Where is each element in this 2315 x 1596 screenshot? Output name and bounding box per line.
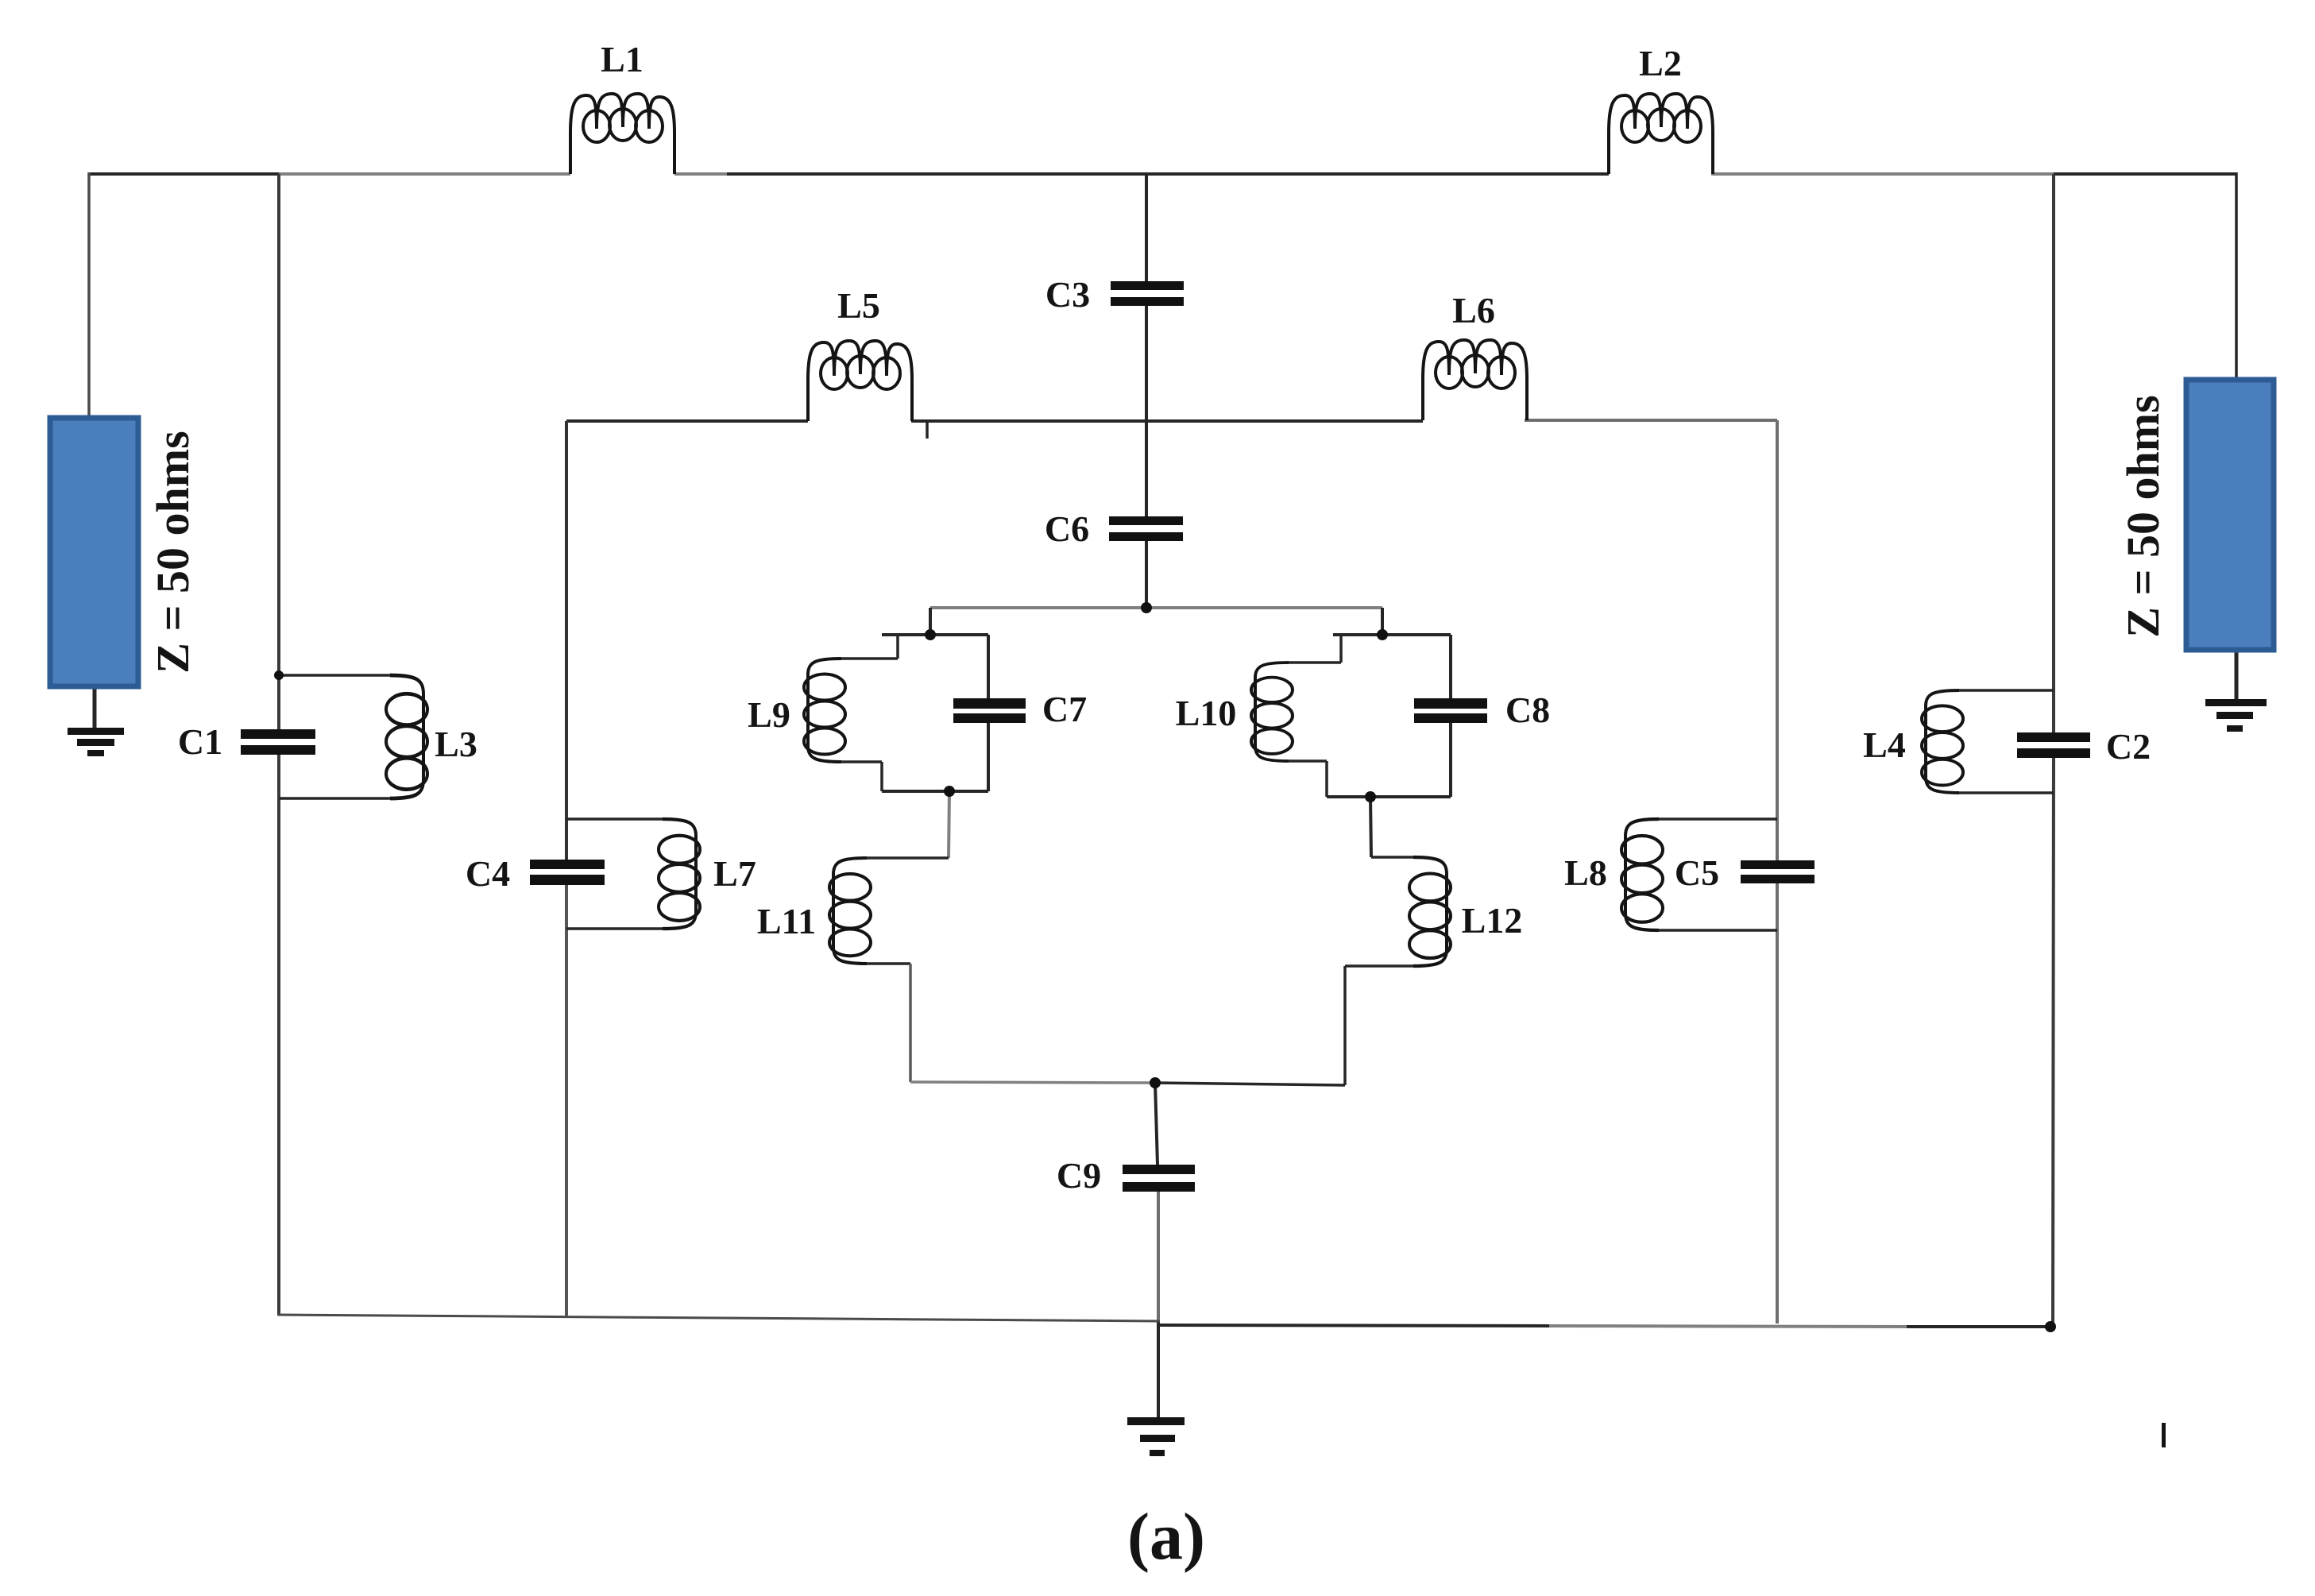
svg-text:C2: C2 — [2106, 726, 2151, 767]
svg-text:C4: C4 — [466, 853, 510, 894]
svg-text:C9: C9 — [1057, 1155, 1101, 1196]
svg-text:L12: L12 — [1462, 900, 1523, 941]
svg-text:L6: L6 — [1452, 290, 1495, 330]
svg-text:L11: L11 — [757, 901, 816, 941]
svg-text:(a): (a) — [1127, 1500, 1205, 1574]
svg-text:L2: L2 — [1639, 43, 1682, 83]
svg-text:L5: L5 — [837, 285, 880, 326]
svg-text:Z = 50 ohms: Z = 50 ohms — [147, 431, 199, 673]
svg-text:C6: C6 — [1045, 508, 1089, 549]
svg-text:Z = 50 ohms: Z = 50 ohms — [2117, 395, 2169, 637]
svg-text:C7: C7 — [1042, 689, 1087, 729]
svg-text:C5: C5 — [1675, 852, 1719, 893]
svg-text:L7: L7 — [713, 853, 756, 894]
svg-text:L3: L3 — [435, 724, 477, 764]
svg-text:L1: L1 — [601, 39, 643, 79]
svg-text:L10: L10 — [1176, 693, 1237, 733]
svg-text:L4: L4 — [1863, 725, 1906, 765]
svg-text:C3: C3 — [1045, 274, 1090, 315]
svg-text:L8: L8 — [1564, 852, 1607, 893]
svg-text:C1: C1 — [178, 721, 222, 762]
svg-text:C8: C8 — [1505, 690, 1550, 730]
svg-text:L9: L9 — [748, 694, 790, 735]
